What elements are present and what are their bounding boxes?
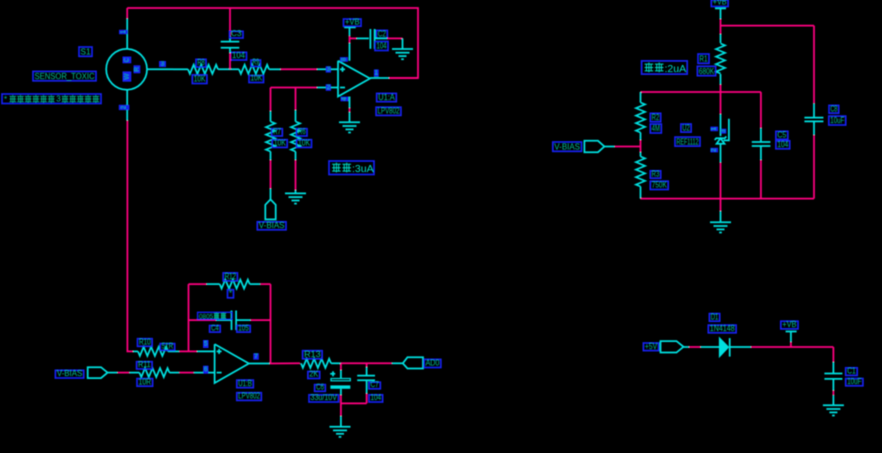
- label C7: [369, 382, 380, 389]
- wire +VB junction to right rail: [721, 25, 815, 27]
- capacitor C3: [221, 41, 240, 43]
- wire C4 left: [189, 319, 217, 321]
- wire C6-C7 bottom link: [341, 402, 367, 404]
- svg-text:R9: R9: [253, 58, 260, 67]
- wire C7 tap: [366, 363, 368, 367]
- label R6: [297, 129, 308, 136]
- annotation power 2uA: [642, 61, 688, 74]
- label 10K of R7: [272, 140, 287, 148]
- resistor R1: [720, 34, 722, 43]
- wire to output ground: [340, 403, 342, 416]
- resistor R11: [139, 368, 169, 377]
- capacitor C2: [369, 29, 371, 49]
- svg-text:3: 3: [327, 66, 331, 73]
- wire +VB tap: [790, 342, 792, 347]
- label R1: [698, 54, 709, 63]
- pin number 3 of U2: [721, 129, 727, 134]
- wire U1A pin2 net: [271, 87, 318, 89]
- svg-text:3: 3: [161, 61, 165, 68]
- svg-text:51R: 51R: [162, 342, 174, 351]
- wire right rail upper: [813, 26, 815, 104]
- wire C6 bottom: [340, 389, 342, 395]
- capacitor C7: [357, 375, 375, 377]
- label R9: [251, 60, 261, 67]
- wire C1 to ground: [832, 379, 834, 391]
- svg-text:C7: C7: [371, 380, 380, 389]
- annotation text *electrochemical sensor package: [2, 94, 101, 104]
- resistor R10: [133, 350, 138, 352]
- annotation power 3uA: [329, 161, 374, 175]
- label 105 of C4: [237, 326, 250, 333]
- svg-text:C6: C6: [316, 383, 324, 392]
- label 104 of C2: [375, 42, 388, 51]
- label U1:B: [237, 380, 254, 388]
- wire V-BIAS to R11: [108, 372, 118, 374]
- wire C8 bottom / right rail lower: [813, 121, 815, 135]
- sensor pin2 stub: [126, 90, 128, 121]
- svg-text:U2: U2: [682, 123, 690, 132]
- label +5V: [643, 343, 658, 351]
- resistor R13: [301, 359, 331, 368]
- label 2K of R13: [308, 372, 320, 379]
- svg-text:R2: R2: [652, 113, 660, 122]
- label R13: [303, 351, 323, 359]
- wire feedback top right: [260, 283, 270, 285]
- svg-text:104: 104: [777, 140, 788, 149]
- wire +5V to D1: [684, 346, 690, 348]
- wire C5 bottom: [760, 146, 762, 160]
- label +VB (supply): [781, 321, 798, 329]
- annotation 0805 package: [198, 312, 233, 319]
- pin number 2 of U2: [710, 148, 718, 153]
- label REF1112: [675, 137, 700, 146]
- wire feedback vertical left: [188, 284, 190, 351]
- label LPV802 of U1B: [237, 393, 261, 401]
- op-amp U1:A: [338, 61, 370, 97]
- label V-BIAS (under R7): [257, 222, 286, 230]
- svg-text:C4: C4: [211, 323, 219, 332]
- resistor R6: [291, 122, 300, 152]
- capacitor C8: [804, 117, 823, 119]
- svg-text:33u/10V: 33u/10V: [311, 393, 338, 402]
- pin number 3 of U1A: [326, 66, 331, 72]
- label 104 of C5: [776, 141, 790, 149]
- wire U2 bottom: [720, 144, 722, 163]
- svg-text:LPV802: LPV802: [378, 107, 400, 116]
- svg-text:+5V: +5V: [645, 342, 658, 351]
- svg-text:1: 1: [120, 30, 127, 34]
- ground of output filter: [330, 426, 351, 428]
- svg-text::3uA: :3uA: [352, 163, 374, 175]
- svg-text:AD0: AD0: [426, 359, 440, 368]
- power port V-BIAS (left of R2/R3): [584, 141, 604, 152]
- resistor R12: [220, 280, 250, 289]
- pin number 8 of U1A: [340, 57, 348, 62]
- power port +VB (supply): [786, 331, 797, 333]
- sensor S1 electrode label C: [123, 57, 132, 64]
- pin number 1 of U2: [710, 127, 718, 132]
- wire output to R13: [270, 362, 300, 364]
- label 750K of R3: [650, 181, 668, 189]
- power port +VB (top right): [715, 7, 726, 9]
- U1B output pin7: [249, 363, 270, 365]
- svg-text:104: 104: [232, 51, 246, 60]
- wire R2-R3 node: [640, 133, 642, 141]
- wire C7 bottom: [366, 380, 368, 393]
- label C3: [230, 31, 244, 38]
- diode D1: [719, 338, 728, 357]
- wire feedback vertical right: [270, 284, 272, 363]
- svg-text:10K: 10K: [251, 74, 263, 83]
- sensor S1 circle: [106, 49, 147, 90]
- wire bottom rail to ground: [720, 199, 722, 211]
- label 104 of C3: [231, 52, 247, 60]
- power port +5V: [661, 341, 684, 352]
- svg-text:S1: S1: [81, 48, 92, 57]
- svg-text:3: 3: [56, 95, 61, 104]
- label 10uF of C1: [846, 379, 863, 386]
- svg-text::2uA: :2uA: [665, 63, 687, 75]
- capacitor C5: [752, 141, 771, 143]
- svg-text:0805: 0805: [199, 313, 214, 320]
- svg-text:V-BIAS: V-BIAS: [554, 143, 580, 152]
- wire C1 top: [832, 347, 834, 362]
- svg-text:4M: 4M: [652, 124, 660, 133]
- svg-text:2: 2: [327, 84, 331, 91]
- svg-text:R1: R1: [700, 55, 708, 64]
- label S1: [79, 47, 92, 56]
- svg-text:SENSOR_TOXIC: SENSOR_TOXIC: [35, 72, 95, 81]
- svg-text:W: W: [123, 74, 130, 80]
- svg-text:2: 2: [711, 148, 718, 152]
- shunt reference U2 zener: [715, 136, 727, 140]
- wire +VB down: [720, 19, 722, 34]
- pin number 2 of U1A: [326, 84, 331, 91]
- label C5: [776, 131, 788, 139]
- svg-text:5: 5: [204, 341, 208, 348]
- svg-text:+VB: +VB: [713, 0, 727, 7]
- wire feedback top left: [189, 283, 207, 285]
- pin number 4 of U1A: [341, 97, 349, 102]
- resistor R3: [636, 157, 645, 187]
- label R7: [272, 129, 283, 136]
- label 104 of C7: [369, 395, 383, 402]
- svg-text:104: 104: [377, 42, 387, 51]
- wire C3 drop: [229, 8, 231, 36]
- label 10R of R11: [137, 379, 153, 387]
- label 4M of R2: [650, 124, 661, 133]
- svg-text:C8: C8: [831, 104, 838, 113]
- resistor R8: [173, 68, 188, 70]
- pin number 6 of U1B: [203, 366, 209, 374]
- svg-text:C1: C1: [847, 367, 856, 376]
- pin number 5 of U1B: [203, 340, 209, 348]
- label 33u/10V of C6: [309, 395, 339, 402]
- U1A pin8 wire: [349, 43, 351, 61]
- U1A pin4 wire: [349, 97, 351, 109]
- svg-text:*: *: [229, 289, 232, 298]
- svg-text:R3: R3: [652, 169, 660, 178]
- wire R10 to U1B pin5: [179, 350, 197, 352]
- svg-text:1: 1: [375, 70, 379, 77]
- label R10: [138, 339, 153, 347]
- U2 pin3 bent stub: [724, 119, 729, 141]
- pin number 1 of U1A: [374, 69, 379, 76]
- wire C5 top: [760, 92, 762, 128]
- ground of supply: [823, 404, 844, 406]
- svg-text:10K: 10K: [194, 75, 206, 84]
- wire sensor pin1 stub: [126, 8, 128, 19]
- svg-text:D1: D1: [711, 312, 719, 321]
- label 51R of R10: [160, 344, 175, 351]
- label U1:A: [377, 93, 397, 101]
- svg-text:2: 2: [121, 105, 128, 109]
- wire C6 tap: [340, 363, 342, 370]
- power port +VB of U1A: [344, 26, 356, 28]
- power port V-BIAS (U1B input): [88, 367, 108, 378]
- wire R6 to ground: [295, 152, 297, 161]
- ground under R6: [285, 192, 306, 194]
- port AD0: [403, 357, 423, 368]
- label SENSOR_TOXIC: [33, 71, 96, 80]
- label +VB: [344, 19, 362, 26]
- svg-text:+VB: +VB: [782, 320, 796, 329]
- label C6: [315, 385, 326, 392]
- svg-text:10K: 10K: [274, 139, 287, 148]
- pin number 1 of S1: [119, 30, 128, 34]
- label R8: [196, 59, 206, 67]
- svg-text:V-BIAS: V-BIAS: [57, 369, 82, 378]
- label V-BIAS (U1B input): [55, 370, 83, 378]
- svg-text:105: 105: [238, 323, 249, 332]
- wire U2 top: [720, 92, 722, 114]
- label C1: [846, 368, 858, 376]
- label U2: [681, 124, 691, 132]
- label 10K of R8: [192, 75, 207, 84]
- wire C3 to node: [229, 48, 231, 53]
- wire pin2 drop to R7: [270, 88, 272, 112]
- wire R1 to inner rail: [720, 85, 722, 93]
- svg-text:10uF: 10uF: [830, 116, 844, 125]
- wire +VB to C2: [350, 37, 357, 39]
- wire D1 to C1: [730, 346, 751, 348]
- svg-text:3: 3: [720, 129, 727, 133]
- sensor S1 electrode label W: [123, 71, 132, 81]
- wire inner loop top: [641, 91, 761, 93]
- svg-text:7: 7: [254, 353, 258, 360]
- svg-text:R13: R13: [304, 350, 321, 359]
- label LPV802 of U1A: [376, 107, 401, 115]
- wire C4 right: [236, 319, 251, 321]
- wire C8 top: [813, 103, 815, 117]
- svg-text:C3: C3: [231, 29, 242, 38]
- wire left rail pin: [640, 92, 642, 103]
- pin number 2 of S1: [119, 105, 130, 110]
- op-amp U1:B: [215, 344, 249, 383]
- svg-text:V-BIAS: V-BIAS: [259, 221, 285, 230]
- svg-text:C: C: [123, 57, 130, 62]
- svg-text:R12: R12: [225, 272, 237, 281]
- sensor S1 electrode label R: [134, 65, 141, 73]
- svg-text:750K: 750K: [652, 181, 667, 190]
- svg-text:R6: R6: [298, 127, 306, 136]
- wire R11 to U1B pin6: [179, 372, 194, 374]
- label 1N4148 of D1: [708, 325, 736, 333]
- resistor R2: [636, 103, 645, 133]
- label D1: [709, 314, 719, 322]
- svg-text:10uF: 10uF: [847, 377, 861, 386]
- wire pin2 drop to R6: [295, 88, 297, 111]
- pin number 3 of S1: [159, 61, 166, 67]
- svg-text:R8: R8: [198, 58, 205, 67]
- svg-text:4: 4: [341, 97, 348, 101]
- svg-text:U1:A: U1:A: [378, 93, 395, 102]
- svg-text:8: 8: [340, 57, 347, 61]
- ground under C2: [392, 48, 413, 50]
- svg-text:+VB: +VB: [345, 17, 360, 26]
- wire sensor pin2 to R10 (long vertical): [127, 121, 133, 352]
- wire R13 to AD0: [341, 362, 392, 364]
- power port V-BIAS (under R7): [265, 199, 275, 219]
- sensor pin3 stub: [147, 68, 173, 70]
- label C2: [376, 30, 387, 38]
- svg-text:R11: R11: [138, 360, 151, 369]
- capacitor C6 electrolytic: [330, 373, 335, 375]
- svg-text:2K: 2K: [309, 370, 318, 379]
- label 10uF of C8: [829, 116, 846, 125]
- svg-text:*: *: [4, 95, 7, 104]
- label R12: [223, 273, 237, 281]
- svg-text:6: 6: [204, 366, 208, 373]
- resistor R9: [239, 65, 269, 74]
- wire top feedback rail net N1: [127, 8, 418, 78]
- label R11: [137, 362, 153, 369]
- wire R7 to V-BIAS port: [270, 152, 272, 161]
- wire R9 to U1A pin3: [281, 68, 318, 70]
- svg-text:C2: C2: [378, 29, 386, 38]
- svg-text:U1:B: U1:B: [238, 379, 252, 388]
- label +VB (top right): [711, 0, 728, 7]
- svg-text:1: 1: [711, 127, 718, 131]
- svg-text:REF1112: REF1112: [677, 137, 699, 146]
- label C4: [210, 326, 221, 333]
- svg-text:R: R: [133, 67, 140, 72]
- capacitor C4: [231, 311, 233, 331]
- svg-text:104: 104: [371, 393, 382, 402]
- ground under U1A pin4: [339, 121, 360, 123]
- svg-text:680K: 680K: [699, 67, 715, 76]
- label R3: [650, 171, 660, 178]
- label R2: [650, 113, 660, 121]
- label C8: [829, 105, 839, 113]
- capacitor C1: [824, 373, 842, 375]
- svg-text:R10: R10: [139, 338, 151, 347]
- wire U1A output to feedback rail: [389, 77, 418, 79]
- svg-text:C5: C5: [777, 131, 786, 140]
- label AD0: [424, 359, 441, 367]
- label 10K of R9: [249, 76, 264, 83]
- svg-text:10R: 10R: [139, 377, 152, 386]
- svg-text:LPV802: LPV802: [238, 392, 260, 401]
- wire R8-R9 node: [218, 68, 239, 70]
- U1A output pin1: [370, 77, 389, 79]
- label 680K of R1: [697, 66, 715, 75]
- pin number 7 of U1B: [253, 353, 258, 360]
- label * of R12: [228, 290, 234, 298]
- wire C2 to ground: [375, 37, 388, 39]
- label 10K of R6: [297, 140, 312, 148]
- wire inner loop bottom rail: [641, 198, 815, 200]
- label V-BIAS (reference section): [553, 142, 582, 151]
- svg-text:R7: R7: [273, 127, 281, 136]
- svg-text:1N4148: 1N4148: [710, 324, 735, 333]
- ground of reference section: [710, 221, 731, 223]
- resistor R7: [266, 122, 275, 152]
- wire node to V-BIAS: [615, 146, 641, 148]
- svg-text:10K: 10K: [298, 139, 311, 148]
